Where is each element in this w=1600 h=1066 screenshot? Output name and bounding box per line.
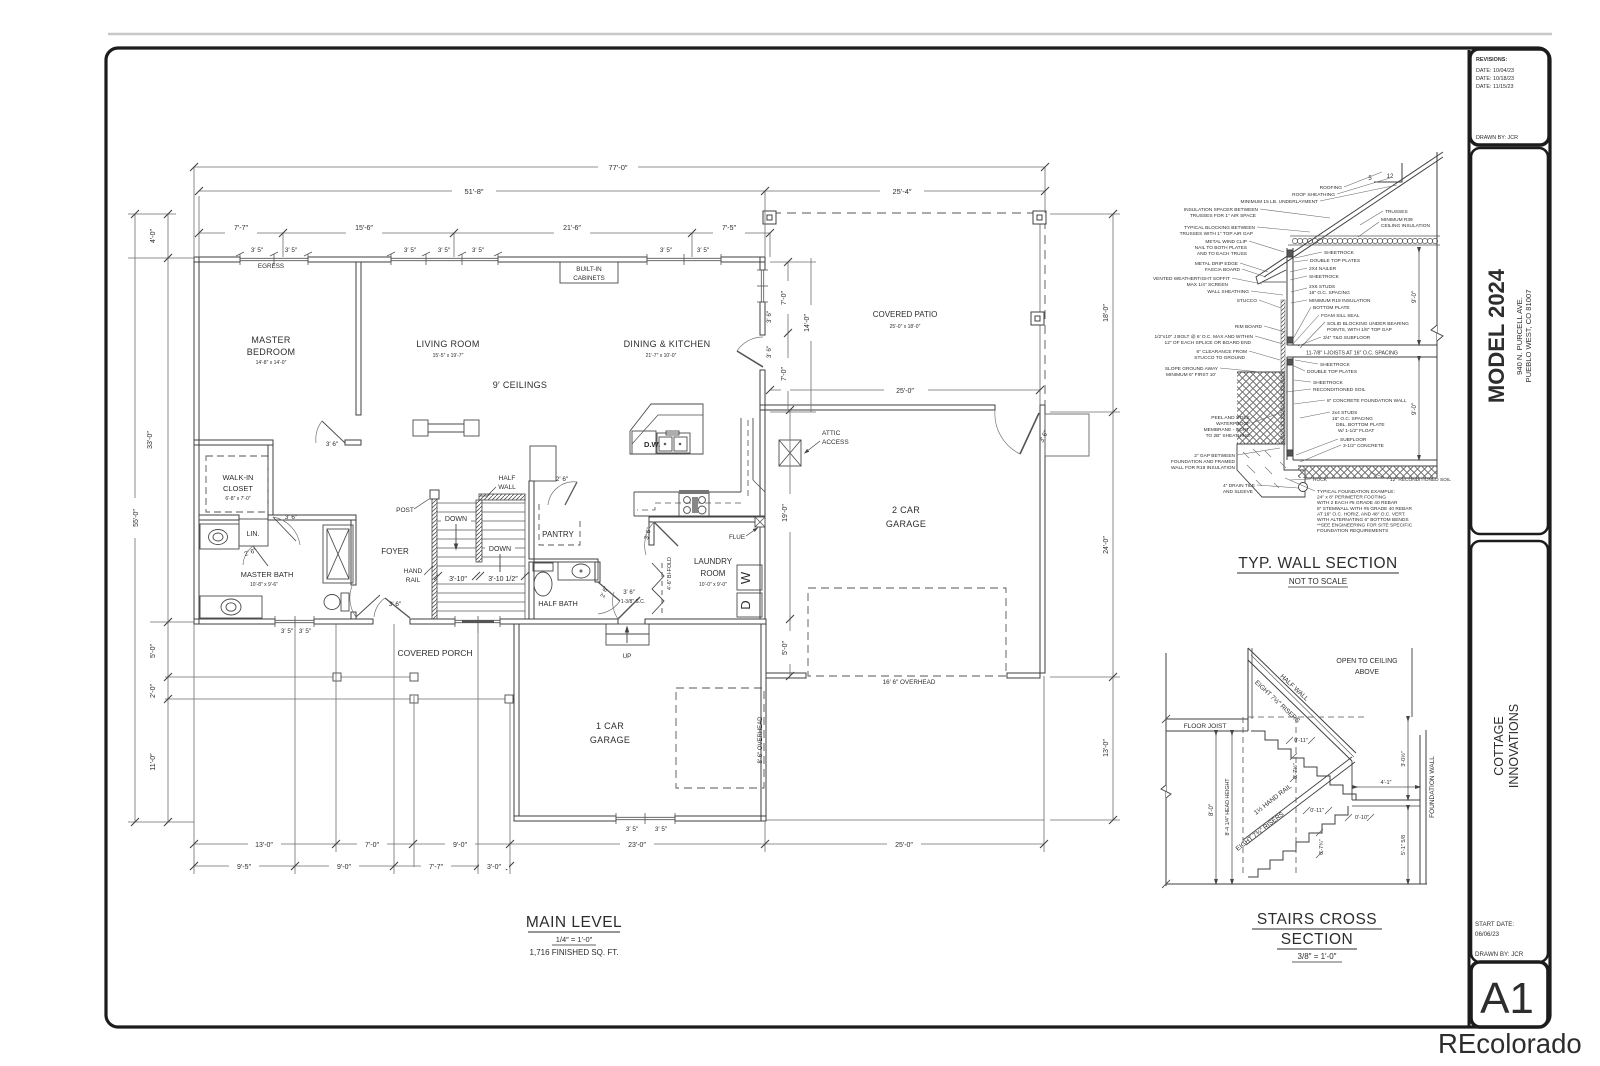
landing right: [1352, 799, 1420, 801]
svg-text:MAIN LEVEL: MAIN LEVEL: [526, 914, 622, 931]
stucco face strip: [1281, 300, 1285, 445]
patio door from dining: [737, 351, 763, 367]
svg-text:WALL: WALL: [498, 484, 516, 491]
patio posts: [763, 211, 1046, 325]
svg-text:13′-0″: 13′-0″: [255, 842, 273, 849]
svg-text:DINING & KITCHEN: DINING & KITCHEN: [624, 339, 711, 349]
svg-text:SUBFLOOR: SUBFLOOR: [1340, 437, 1367, 443]
pantry/kitchen wall: [529, 481, 534, 559]
svg-text:2′ 6″: 2′ 6″: [556, 476, 569, 483]
garage inner dims: [789, 410, 791, 676]
master bedroom windows: [240, 257, 308, 259]
svg-text:06/06/23: 06/06/23: [1475, 931, 1500, 938]
svg-text:TYP. WALL SECTION: TYP. WALL SECTION: [1238, 555, 1398, 572]
title block divider: [1468, 50, 1471, 1026]
right dims: [1112, 214, 1114, 820]
hall to stoop door: [618, 597, 640, 619]
svg-text:12: 12: [1387, 174, 1394, 180]
garage slab lines: [1043, 676, 1045, 820]
svg-text:SOLID BLOCKING UNDER BEARING: SOLID BLOCKING UNDER BEARING: [1327, 321, 1409, 327]
ceiling insulation circles: [1288, 236, 1440, 245]
svg-text:WALL FOR R19 INSULATION: WALL FOR R19 INSULATION: [1171, 465, 1236, 471]
svg-text:25′-4″: 25′-4″: [892, 187, 911, 196]
svg-text:INNOVATIONS: INNOVATIONS: [1507, 704, 1521, 788]
svg-text:FOYER: FOYER: [381, 547, 409, 556]
svg-text:UP: UP: [623, 653, 632, 660]
svg-text:D: D: [738, 600, 753, 609]
svg-text:STAIRS CROSS: STAIRS CROSS: [1257, 911, 1377, 928]
svg-text:0′-11″: 0′-11″: [1294, 738, 1308, 744]
9'-0 dims: [1418, 250, 1420, 343]
svg-text:GARAGE: GARAGE: [590, 735, 630, 745]
svg-text:9′-0″: 9′-0″: [337, 864, 351, 871]
svg-text:3′ 6″: 3′ 6″: [766, 310, 773, 323]
svg-text:RIM BOARD: RIM BOARD: [1235, 324, 1263, 330]
svg-text:W: W: [738, 571, 753, 584]
svg-text:10′-0″ x 9′-0″: 10′-0″ x 9′-0″: [699, 582, 727, 588]
svg-text:8″ STEMWALL WITH #5 GRADE 40 R: 8″ STEMWALL WITH #5 GRADE 40 REBAR: [1317, 506, 1412, 512]
svg-text:3′ 5″: 3′ 5″: [697, 247, 710, 254]
svg-text:METAL DRIP EDGE: METAL DRIP EDGE: [1195, 261, 1238, 267]
2-car garage bottom wall pieces: [766, 673, 806, 678]
svg-text:25′-0″: 25′-0″: [895, 842, 913, 849]
bath right wall: [351, 520, 356, 585]
svg-text:ATTIC: ATTIC: [822, 430, 841, 437]
closet right wall: [268, 445, 273, 515]
svg-text:START DATE:: START DATE:: [1475, 921, 1514, 928]
svg-text:PUEBLO WEST, CO 81007: PUEBLO WEST, CO 81007: [1524, 290, 1533, 383]
top dims: [194, 166, 598, 168]
svg-text:5′-1″ 5/8: 5′-1″ 5/8: [1401, 835, 1407, 855]
floor band: [1287, 344, 1437, 346]
top extension lines: [193, 167, 195, 257]
svg-text:STUCCO TO GROUND: STUCCO TO GROUND: [1194, 355, 1245, 361]
svg-text:DATE: 10/04/23: DATE: 10/04/23: [1476, 68, 1514, 74]
svg-text:0′-10″: 0′-10″: [1355, 815, 1369, 821]
svg-text:3′ 5″: 3′ 5″: [404, 247, 417, 254]
svg-text:7′-0″: 7′-0″: [781, 291, 788, 305]
stove: [679, 490, 709, 516]
footing: [1237, 444, 1305, 497]
svg-text:RAIL: RAIL: [406, 577, 421, 584]
svg-text:3′ 5″: 3′ 5″: [285, 247, 298, 254]
svg-text:FLOOR JOIST: FLOOR JOIST: [1184, 723, 1227, 730]
bedroom/hall wall: [356, 262, 361, 415]
svg-text:940 N. PURCELL AVE.: 940 N. PURCELL AVE.: [1515, 297, 1524, 375]
svg-text:LIVING ROOM: LIVING ROOM: [416, 339, 479, 349]
svg-text:10′-8″ x 9′-6″: 10′-8″ x 9′-6″: [250, 582, 278, 588]
svg-text:23′-0″: 23′-0″: [628, 842, 646, 849]
svg-text:HAND: HAND: [404, 568, 423, 575]
svg-text:DOUBLE TOP PLATES: DOUBLE TOP PLATES: [1310, 258, 1360, 264]
svg-text:2 CAR: 2 CAR: [892, 505, 920, 515]
svg-text:COVERED PATIO: COVERED PATIO: [873, 310, 938, 319]
svg-text:SHEETROCK: SHEETROCK: [1313, 380, 1344, 386]
bottom extension lines: [193, 624, 195, 874]
svg-text:0′-11″: 0′-11″: [1310, 808, 1324, 814]
svg-text:POST: POST: [396, 507, 414, 514]
svg-text:8′-0″: 8′-0″: [1209, 803, 1215, 816]
svg-text:2X6 STUDS: 2X6 STUDS: [1309, 284, 1335, 290]
svg-text:DATE: 11/15/23: DATE: 11/15/23: [1476, 84, 1514, 90]
svg-text:3′ 5″: 3′ 5″: [299, 628, 312, 635]
pantry dashed: [539, 504, 580, 545]
svg-text:FLUE: FLUE: [729, 534, 745, 541]
svg-text:11′-0″: 11′-0″: [150, 753, 157, 771]
svg-text:MINIMUM R19 INSULATION: MINIMUM R19 INSULATION: [1309, 298, 1371, 304]
floor joist band: [1166, 718, 1248, 720]
svg-text:33′-0″: 33′-0″: [147, 431, 154, 449]
svg-text:ROOF SHEATHING: ROOF SHEATHING: [1292, 192, 1335, 198]
bottom exterior wall segments: [194, 619, 275, 624]
svg-text:SHEETROCK: SHEETROCK: [1320, 362, 1351, 368]
lower wall: [1286, 357, 1288, 460]
1-car garage windows bottom: [616, 816, 675, 818]
dashed hidden lines: [1243, 717, 1364, 877]
bottom dims: [194, 843, 1044, 845]
A1 box: [1471, 962, 1548, 1027]
svg-text:INSULATION SPACER BETWEEN: INSULATION SPACER BETWEEN: [1184, 207, 1259, 213]
svg-text:13′-0″: 13′-0″: [1103, 739, 1110, 757]
garage bump-out: [1045, 414, 1089, 456]
svg-text:FOUNDATION AND FRAMED: FOUNDATION AND FRAMED: [1171, 459, 1236, 465]
svg-text:21′-7″ x 10′-0″: 21′-7″ x 10′-0″: [646, 353, 677, 359]
svg-text:24″ x 8″ PERIMETER FOOTING: 24″ x 8″ PERIMETER FOOTING: [1317, 495, 1386, 501]
top exterior wall segments: [194, 257, 240, 262]
svg-text:GARAGE: GARAGE: [886, 519, 926, 529]
half bath walls: [534, 559, 598, 562]
svg-text:HALF: HALF: [499, 475, 516, 482]
svg-text:12″ RECONDITIONED SOIL: 12″ RECONDITIONED SOIL: [1390, 477, 1451, 483]
svg-text:PANTRY: PANTRY: [542, 530, 574, 539]
porch lines + posts: [165, 676, 416, 678]
svg-text:7′-7″: 7′-7″: [429, 864, 443, 871]
svg-text:SHEETROCK: SHEETROCK: [1309, 274, 1340, 280]
svg-text:3′ 5″: 3′ 5″: [472, 247, 485, 254]
dim labels: [234, 163, 914, 871]
patio dashed edges: [772, 212, 1036, 214]
svg-text:AND SLEEVE: AND SLEEVE: [1223, 489, 1253, 495]
step dims: [1292, 738, 1369, 855]
cottage innovations box: [1471, 541, 1548, 962]
2-car garage right wall: [1040, 405, 1045, 673]
interior walls: [194, 262, 765, 619]
svg-text:25′-0″: 25′-0″: [896, 388, 914, 395]
svg-text:2′-0″: 2′-0″: [150, 684, 157, 698]
svg-text:15′-6″: 15′-6″: [355, 225, 373, 232]
svg-text:7′-0″: 7′-0″: [781, 367, 788, 381]
svg-text:2″ GAP BETWEEN: 2″ GAP BETWEEN: [1194, 453, 1235, 459]
svg-text:FOUNDATION WALL: FOUNDATION WALL: [1429, 756, 1436, 818]
basement slab: [1293, 459, 1437, 461]
svg-text:3′ 6″: 3′ 6″: [326, 441, 339, 448]
handrail lower: [1243, 757, 1352, 840]
svg-text:DRAWN BY: JCR: DRAWN BY: JCR: [1475, 951, 1524, 958]
pantry door + fridge: [530, 446, 556, 481]
upper wall: [1287, 152, 1437, 478]
svg-text:TRUSSES: TRUSSES: [1385, 209, 1408, 215]
svg-text:AT 16″ O.C. HORIZ. AND 48″ O.C: AT 16″ O.C. HORIZ. AND 48″ O.C. VERT.: [1317, 511, 1405, 517]
svg-text:ACCESS: ACCESS: [822, 439, 849, 446]
svg-text:VENTED WEATHERTIGHT SOFFIT: VENTED WEATHERTIGHT SOFFIT: [1153, 276, 1230, 282]
svg-text:TO 2B″ SHEATHING: TO 2B″ SHEATHING: [1206, 433, 1251, 439]
2 car garage door dashed: [808, 588, 1006, 676]
stairs / foyer: [381, 475, 529, 619]
svg-text:77′-0″: 77′-0″: [608, 163, 627, 172]
svg-text:A1: A1: [1480, 974, 1534, 1023]
faint scan line top: [108, 33, 1552, 36]
svg-text:RECONDITIONED SOIL: RECONDITIONED SOIL: [1313, 387, 1366, 393]
1-car garage bottom wall: [514, 816, 616, 821]
svg-text:5′-0″: 5′-0″: [150, 644, 157, 658]
svg-text:9′-0″: 9′-0″: [1412, 290, 1418, 303]
svg-text:WATERPROOF: WATERPROOF: [1216, 421, 1250, 427]
wall section right labels: [1307, 209, 1451, 534]
room labels: [223, 266, 938, 763]
svg-text:3′ 6″: 3′ 6″: [285, 514, 298, 521]
svg-text:TRUSSES WITH 1″ TOP AIR GAP: TRUSSES WITH 1″ TOP AIR GAP: [1180, 231, 1253, 237]
svg-text:19′-0″: 19′-0″: [782, 504, 789, 522]
svg-text:DBL. BOTTOM PLATE: DBL. BOTTOM PLATE: [1336, 422, 1385, 428]
attic access: [779, 440, 801, 466]
svg-text:REVISIONS:: REVISIONS:: [1476, 57, 1507, 63]
svg-text:EGRESS: EGRESS: [258, 263, 284, 270]
svg-text:TYPICAL FOUNDATION EXAMPLE:: TYPICAL FOUNDATION EXAMPLE:: [1317, 489, 1395, 495]
svg-text:7′-5″: 7′-5″: [722, 225, 736, 232]
svg-text:CEILING INSULATION: CEILING INSULATION: [1381, 223, 1430, 229]
svg-text:3′ 5″: 3′ 5″: [251, 247, 264, 254]
top post of half wall: [1247, 648, 1249, 731]
svg-text:WITH ALTERNATING 6″ BOTTOM BEN: WITH ALTERNATING 6″ BOTTOM BENDS: [1317, 517, 1409, 523]
lower flight steps: [1248, 806, 1348, 877]
bedroom bottom wall: [194, 440, 273, 445]
svg-text:FOUNDATION REQUIREMENTS: FOUNDATION REQUIREMENTS: [1317, 528, 1388, 534]
1-car garage left wall: [514, 624, 519, 816]
wall section left labels: [1153, 185, 1342, 495]
svg-text:3′-10″: 3′-10″: [449, 576, 467, 583]
svg-text:NAIL TO BOTH PLATES: NAIL TO BOTH PLATES: [1195, 245, 1247, 251]
half wall diagonals: [1248, 648, 1356, 753]
1 car garage door dashed: [676, 688, 764, 788]
svg-text:3/8″ = 1′-0″: 3/8″ = 1′-0″: [1298, 952, 1337, 961]
svg-text:TYPICAL BLOCKING BETWEEN: TYPICAL BLOCKING BETWEEN: [1184, 225, 1256, 231]
svg-text:ROCK: ROCK: [1313, 477, 1328, 483]
left exterior wall: [194, 257, 199, 624]
master suite fixtures: [200, 421, 380, 618]
svg-text:WALL SHEATHING: WALL SHEATHING: [1207, 289, 1249, 295]
svg-text:D.W.: D.W.: [644, 440, 660, 449]
svg-text:MINIMUM 6″ FIRST 10′: MINIMUM 6″ FIRST 10′: [1166, 372, 1216, 378]
svg-text:1/4″ = 1′-0″: 1/4″ = 1′-0″: [556, 935, 593, 944]
roof lines: [1262, 152, 1443, 273]
svg-text:5′-0″: 5′-0″: [782, 641, 789, 655]
svg-text:4′-1″: 4′-1″: [1381, 780, 1392, 786]
svg-text:DATE: 10/18/23: DATE: 10/18/23: [1476, 76, 1514, 82]
svg-text:REcolorado: REcolorado: [1438, 1028, 1582, 1059]
svg-text:14′-0″: 14′-0″: [804, 314, 811, 332]
svg-text:15′-5″ x 19′-7″: 15′-5″ x 19′-7″: [433, 353, 464, 359]
eave details: [1256, 270, 1286, 284]
svg-text:BOTTOM PLATE: BOTTOM PLATE: [1313, 305, 1350, 311]
svg-text:MINIMUM R39: MINIMUM R39: [1381, 217, 1413, 223]
flue: [755, 517, 765, 527]
svg-text:WITH 2 EACH #5 GRADE 40 REBAR: WITH 2 EACH #5 GRADE 40 REBAR: [1317, 500, 1398, 506]
svg-text:AND TO EACH TRUSS: AND TO EACH TRUSS: [1197, 251, 1247, 257]
svg-text:3′ 6″: 3′ 6″: [389, 601, 402, 608]
svg-text:MAX 1/4″ SCREEN: MAX 1/4″ SCREEN: [1187, 282, 1229, 288]
patio bottom dim: [770, 389, 884, 391]
svg-text:14′-8″ x 14′-0″: 14′-8″ x 14′-0″: [256, 360, 287, 366]
UP stoop: [606, 624, 649, 645]
svg-text:LAUNDRY: LAUNDRY: [694, 557, 733, 566]
svg-text:PEEL AND STICK: PEEL AND STICK: [1211, 415, 1251, 421]
svg-text:CLOSET: CLOSET: [223, 484, 253, 493]
svg-text:TRUSSES FOR 1″ AIR SPACE: TRUSSES FOR 1″ AIR SPACE: [1190, 213, 1256, 219]
right wall window: [760, 270, 762, 302]
front door: [385, 598, 410, 618]
foundation wall right: [1419, 735, 1421, 884]
walk-in closet dashed: [206, 456, 268, 512]
upper flight steps: [1251, 731, 1356, 800]
windows on walls: [236, 252, 768, 824]
svg-text:FASCIA BOARD: FASCIA BOARD: [1205, 267, 1241, 273]
laundry: [654, 522, 678, 546]
svg-text:BUILT-IN: BUILT-IN: [576, 266, 602, 273]
svg-text:9′-0″: 9′-0″: [1412, 402, 1418, 415]
svg-text:ABOVE: ABOVE: [1355, 669, 1379, 676]
svg-text:HALF BATH: HALF BATH: [538, 599, 578, 608]
right house wall: [760, 257, 765, 270]
bottom floor line: [1166, 883, 1427, 885]
svg-text:11-7/8″ I-JOISTS AT 16″ O.C. S: 11-7/8″ I-JOISTS AT 16″ O.C. SPACING: [1306, 351, 1398, 357]
svg-text:9′-0″: 9′-0″: [453, 842, 467, 849]
svg-text:3′ 6″: 3′ 6″: [766, 345, 773, 358]
svg-text:DOWN: DOWN: [489, 546, 511, 553]
svg-text:16″ O.C. SPACING: 16″ O.C. SPACING: [1332, 416, 1373, 422]
svg-text:16″ O.C. SPACING: 16″ O.C. SPACING: [1309, 290, 1350, 296]
svg-text:2X4 NAILER: 2X4 NAILER: [1309, 266, 1337, 272]
svg-text:3/4″ T&G SUBFLOOR: 3/4″ T&G SUBFLOOR: [1323, 335, 1371, 341]
left wall line: [1165, 653, 1167, 886]
svg-text:**SEE ENGINEERING FOR SITE SPE: **SEE ENGINEERING FOR SITE SPECIFIC: [1317, 523, 1413, 529]
svg-text:8′-4 1/4″ HEAD HEIGHT: 8′-4 1/4″ HEAD HEIGHT: [1225, 778, 1231, 836]
svg-text:8′ 6″ OVERHEAD: 8′ 6″ OVERHEAD: [758, 716, 764, 764]
living room bench: [413, 420, 479, 436]
1-car garage right wall: [761, 624, 766, 821]
svg-text:BEDROOM: BEDROOM: [247, 347, 296, 357]
svg-text:51′-8″: 51′-8″: [464, 187, 483, 196]
svg-text:9′-5″: 9′-5″: [237, 864, 251, 871]
svg-text:3′-0″: 3′-0″: [487, 864, 501, 871]
garage top wall: [760, 405, 995, 410]
svg-text:16′ 6″ OVERHEAD: 16′ 6″ OVERHEAD: [883, 679, 936, 686]
leader lines: [1220, 172, 1397, 491]
reconditioned soil under slab: [1298, 466, 1437, 478]
svg-text:LIN.: LIN.: [247, 531, 260, 538]
svg-text:WALK-IN: WALK-IN: [223, 473, 254, 482]
master bath windows bottom: [275, 619, 314, 621]
svg-text:7′-0″: 7′-0″: [365, 842, 379, 849]
svg-text:MASTER: MASTER: [251, 335, 291, 345]
revisions box: [1470, 49, 1549, 145]
kitchen: [630, 404, 765, 516]
door dims right wall: [787, 262, 789, 410]
svg-text:3′ 5″: 3′ 5″: [626, 826, 639, 833]
svg-text:21′-6″: 21′-6″: [563, 225, 581, 232]
soil hatch left: [1237, 372, 1284, 444]
half bath fixtures: [533, 562, 620, 614]
svg-text:7′-7″: 7′-7″: [234, 225, 248, 232]
svg-text:24′-0″: 24′-0″: [1103, 536, 1110, 554]
svg-text:3′ 5″: 3′ 5″: [281, 628, 294, 635]
svg-text:SECTION: SECTION: [1281, 931, 1353, 948]
dining windows: [647, 257, 721, 259]
svg-text:1 CAR: 1 CAR: [596, 721, 624, 731]
svg-text:3′ 5″: 3′ 5″: [660, 247, 673, 254]
svg-text:MASTER BATH: MASTER BATH: [241, 570, 294, 579]
model 2024 box: [1471, 148, 1548, 534]
svg-text:COTTAGE: COTTAGE: [1492, 716, 1506, 776]
svg-text:55′-0″: 55′-0″: [133, 509, 140, 527]
svg-text:9′ CEILINGS: 9′ CEILINGS: [493, 380, 548, 390]
svg-text:12″ OF EACH SPLICE OR BOARD EN: 12″ OF EACH SPLICE OR BOARD END: [1165, 340, 1252, 346]
svg-text:SHEETROCK: SHEETROCK: [1324, 250, 1355, 256]
svg-text:ROOM: ROOM: [701, 569, 726, 578]
svg-text:DRAWN BY: JCR: DRAWN BY: JCR: [1476, 135, 1518, 141]
svg-text:MEMBRANE - CONT.: MEMBRANE - CONT.: [1204, 427, 1250, 433]
svg-text:NOT TO SCALE: NOT TO SCALE: [1289, 577, 1347, 586]
dim slash ticks: [131, 163, 1117, 870]
svg-text:METAL WIND CLIP: METAL WIND CLIP: [1205, 239, 1247, 245]
svg-text:4″ DRAIN TILE: 4″ DRAIN TILE: [1223, 483, 1255, 489]
svg-text:3-1/2″ CONCRETE: 3-1/2″ CONCRETE: [1343, 443, 1384, 449]
svg-text:DOWN: DOWN: [445, 516, 467, 523]
svg-text:STUCCO: STUCCO: [1237, 298, 1258, 304]
living room windows: [391, 257, 498, 259]
big dims: [1215, 733, 1217, 882]
svg-text:2x4 STUDS: 2x4 STUDS: [1332, 410, 1357, 416]
right break line: [1436, 152, 1438, 478]
svg-text:POINTS, WITH 1/8″ TOP GAP: POINTS, WITH 1/8″ TOP GAP: [1327, 327, 1392, 333]
laundry top wall: [649, 517, 765, 522]
svg-text:1-3/8″ S.C.: 1-3/8″ S.C.: [621, 599, 645, 605]
svg-text:OPEN TO CEILING: OPEN TO CEILING: [1336, 658, 1397, 665]
svg-text:3′ 5″: 3′ 5″: [655, 826, 668, 833]
svg-text:1,716 FINISHED SQ. FT.: 1,716 FINISHED SQ. FT.: [530, 948, 619, 957]
svg-text:SLOPE GROUND AWAY: SLOPE GROUND AWAY: [1165, 366, 1219, 372]
svg-text:W/ 1-1/2″ FLOAT: W/ 1-1/2″ FLOAT: [1338, 428, 1374, 434]
svg-text:18′-0″: 18′-0″: [1103, 304, 1110, 322]
svg-text:6″ CLEARANCE FROM: 6″ CLEARANCE FROM: [1197, 349, 1247, 355]
svg-text:4′-6″ BI-FOLD: 4′-6″ BI-FOLD: [667, 557, 673, 590]
svg-text:3′-10 1/2″: 3′-10 1/2″: [488, 576, 518, 583]
svg-text:MODEL 2024: MODEL 2024: [1484, 268, 1509, 403]
left dims: [134, 214, 136, 822]
svg-text:FOAM SILL SEAL: FOAM SILL SEAL: [1321, 313, 1360, 319]
svg-text:CABINETS: CABINETS: [573, 275, 605, 282]
svg-text:ROOFING: ROOFING: [1320, 185, 1343, 191]
svg-text:4′-0″: 4′-0″: [150, 229, 157, 243]
svg-text:1/2″x10″ J BOLT @ 6′ O.C. MAX: 1/2″x10″ J BOLT @ 6′ O.C. MAX AND WITHIN: [1154, 334, 1253, 340]
garage entry door: [1020, 413, 1039, 454]
svg-text:25′-0″ x 18′-0″: 25′-0″ x 18′-0″: [890, 324, 921, 330]
window size labels: [251, 247, 710, 833]
slope marker: [1374, 163, 1402, 182]
svg-text:DOUBLE TOP PLATES: DOUBLE TOP PLATES: [1307, 369, 1357, 375]
svg-text:6′-8″ x 7′-0″: 6′-8″ x 7′-0″: [225, 496, 250, 502]
svg-text:3′ 6″: 3′ 6″: [623, 590, 635, 596]
bath top wall: [199, 515, 239, 520]
